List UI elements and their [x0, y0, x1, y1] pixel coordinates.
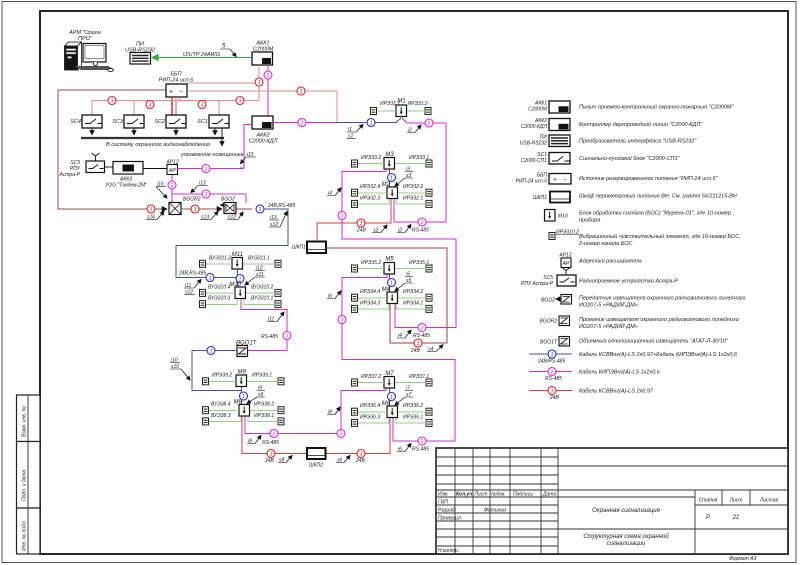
- marker 3: [191, 205, 199, 213]
- svg-text:АР: АР: [562, 261, 570, 267]
- svg-text:№док.: №док.: [491, 492, 506, 498]
- svg-text:24В: 24В: [355, 458, 366, 464]
- flag i7 s7: [395, 386, 413, 406]
- svg-text:ШКП2: ШКП2: [309, 463, 323, 469]
- wire red SC supply bus: [92, 100, 259, 102]
- wire АКК3 to АР12: [143, 168, 168, 170]
- wire node to blue trunk: [236, 208, 252, 210]
- svg-text:BGOR2: BGOR2: [183, 197, 201, 203]
- svg-text:Структурная схема охранной: Структурная схема охранной: [583, 533, 669, 540]
- wire blue BGO1T to М9: [192, 351, 242, 391]
- marker 1: [256, 205, 264, 213]
- svg-text:сигнализации: сигнализации: [607, 541, 646, 547]
- ШКП2 cabinet: [307, 448, 326, 469]
- legend BGOR2: [539, 316, 738, 330]
- element ВУЭ38.3: [203, 418, 209, 425]
- svg-text:24В: 24В: [549, 395, 560, 401]
- АКК1 С2000М: [252, 41, 274, 66]
- legend cable 1: [529, 350, 738, 365]
- marker 1: [388, 393, 396, 401]
- svg-text:RS-485: RS-485: [261, 334, 278, 340]
- marker 1: [367, 119, 375, 127]
- wire green М3 right: [395, 163, 426, 165]
- svg-text:С2000М: С2000М: [528, 107, 548, 113]
- BGOR2 receiver: [169, 197, 201, 215]
- legend ИРЭ310.2 element: [549, 230, 741, 248]
- wire blue М11-М10 link: [237, 270, 239, 288]
- wire blue М3-М2 link: [389, 170, 391, 188]
- svg-text:Лист: Лист: [474, 492, 488, 498]
- marker 2: [264, 71, 272, 79]
- element ИРЭ39.1: [278, 378, 284, 385]
- АКК2 С2000-КДЛ: [249, 116, 278, 145]
- stamp grid vertical lines: [455, 448, 750, 554]
- box Инв. № подл.: [17, 508, 41, 554]
- legend cable 3: [529, 387, 654, 402]
- wire green М1 left: [377, 110, 396, 112]
- svg-text:ВУЭ310.3: ВУЭ310.3: [208, 296, 231, 302]
- svg-text:ВУЭ310.1: ВУЭ310.1: [251, 296, 274, 302]
- BGO2 emit arrow: [221, 204, 228, 206]
- svg-text:Источник резервированного пита: Источник резервированного питания "РИП-2…: [579, 176, 719, 182]
- wire RS-485 magenta М8 to М7 chain: [245, 417, 337, 434]
- marker 3: [198, 101, 206, 109]
- legend cable 2: [529, 368, 661, 383]
- svg-text:ВУЭ311.1: ВУЭ311.1: [248, 256, 270, 262]
- marker 3: [414, 339, 422, 347]
- legend SC1 С2000-СП1: [521, 152, 681, 164]
- wire green М9 left: [209, 381, 236, 383]
- wire magenta АР12 down to BGOR2: [171, 175, 173, 203]
- svg-text:Фотиных: Фотиных: [484, 508, 507, 514]
- flag i6: [397, 444, 411, 453]
- element ИРЭ34.4: [352, 294, 358, 301]
- wire green М5 right: [395, 268, 426, 270]
- marker 2: [202, 165, 210, 173]
- АКК3 УОО Тандем-2М: [105, 162, 147, 189]
- legend ШКП1: [533, 192, 737, 203]
- element ИРЭ31.1: [371, 108, 377, 115]
- marker 2: [168, 181, 176, 189]
- svg-text:Н.контр.: Н.контр.: [438, 548, 459, 554]
- svg-text:2-номер канала БОС: 2-номер канала БОС: [578, 241, 632, 247]
- video system bus: [81, 137, 224, 139]
- BGO2 transmitter: [221, 197, 236, 214]
- svg-text:С2000-КДЛ: С2000-КДЛ: [249, 139, 278, 145]
- svg-text:ИРЭ37.2: ИРЭ37.2: [361, 374, 381, 380]
- wire green М10 right bottom: [244, 299, 275, 304]
- marker 3: [146, 101, 154, 109]
- wire red BGOR2 to BGO2: [181, 208, 222, 210]
- SC5 РПУ Астра-Р: [59, 153, 105, 178]
- svg-text:ИРЭ32.1: ИРЭ32.1: [403, 196, 423, 202]
- svg-text:BGO2: BGO2: [541, 298, 555, 304]
- marker 2: [425, 119, 433, 127]
- arrow to lighting control: [221, 128, 223, 146]
- arrows SC to video bus: [91, 128, 93, 135]
- flag i1 s1: [347, 125, 364, 140]
- SC3 С2000-СП1: [112, 115, 144, 128]
- element ВУЭ38.4: [203, 407, 209, 414]
- svg-text:SC2: SC2: [154, 119, 165, 125]
- АРМ "Орион ПРО" workstation: [65, 30, 116, 441]
- svg-text:ИРЭ38.2: ИРЭ38.2: [254, 402, 274, 408]
- svg-text:SC3: SC3: [112, 119, 124, 125]
- flag i5 s5: [395, 272, 413, 292]
- svg-text:24В,RS-485: 24В,RS-485: [178, 271, 206, 277]
- svg-text:Лист: Лист: [729, 498, 743, 504]
- svg-text:Охранная сигнализация: Охранная сигнализация: [592, 508, 660, 514]
- element ИРЭ36.3: [352, 419, 358, 426]
- ББП РИП-24 исп.6: [159, 72, 194, 98]
- wire green М4 left top: [358, 297, 387, 299]
- wire green М6 right bottom: [396, 418, 426, 423]
- marker 3: [357, 450, 365, 458]
- svg-text:ИРЭ36.1: ИРЭ36.1: [403, 415, 423, 421]
- svg-text:BGOR2: BGOR2: [539, 319, 557, 325]
- element ИРЭ32.2: [426, 189, 432, 196]
- svg-text:ИРЭ33.1: ИРЭ33.1: [409, 155, 429, 161]
- wire RS-485 magenta М10 to BGO1T: [241, 299, 287, 351]
- svg-text:ВУЭ310.4: ВУЭ310.4: [208, 285, 231, 291]
- element ИРЭ35.2: [352, 265, 358, 272]
- element ИРЭ31.2: [425, 108, 431, 115]
- svg-text:ИРЭ37.1: ИРЭ37.1: [409, 374, 429, 380]
- wire red 24V М8 to ШКП2: [242, 417, 307, 454]
- flag i4: [327, 188, 341, 197]
- svg-text:ВУЭ311.2: ВУЭ311.2: [209, 256, 231, 262]
- element ВУЭ310.4: [200, 289, 206, 296]
- svg-text:РИП-24 исп.6: РИП-24 исп.6: [516, 179, 548, 185]
- legend ББП РИП-24: [516, 173, 719, 185]
- svg-text:ШКП1: ШКП1: [533, 195, 547, 201]
- wire blue М7-М6 link: [389, 389, 391, 407]
- svg-text:ИРЭ32.2: ИРЭ32.2: [403, 184, 423, 190]
- legend BGO1T: [540, 337, 729, 347]
- legend SC5 РПУ Астра-Р: [521, 268, 678, 288]
- flag i8: [247, 436, 261, 445]
- element ИРЭ36.4: [352, 408, 358, 415]
- svg-text:ШКП1: ШКП1: [292, 245, 306, 251]
- svg-text:Блок обработки сигнала (БОС) ": Блок обработки сигнала (БОС) "Мурена-01"…: [579, 211, 731, 217]
- svg-text:М5: М5: [385, 257, 394, 263]
- flag i4: [397, 330, 411, 339]
- svg-text:RS-485: RS-485: [413, 333, 430, 339]
- svg-text:+: +: [553, 178, 557, 184]
- flag i15: [241, 152, 257, 164]
- svg-text:RS-485: RS-485: [545, 376, 562, 382]
- wire green М8 left bottom: [209, 417, 241, 422]
- svg-text:Инв. № подл.: Инв. № подл.: [22, 520, 28, 551]
- svg-text:ВУЭ38.3: ВУЭ38.3: [211, 413, 231, 419]
- wire green М8 right top: [250, 409, 278, 411]
- wire 24V red ББП to АКК1 drop: [187, 82, 255, 84]
- element ИРЭ39.2: [203, 378, 209, 385]
- svg-text:управление освещением: управление освещением: [180, 152, 245, 158]
- svg-text:Кабель КСВВнг(А)-LS 2х0,97+Каб: Кабель КСВВнг(А)-LS 2х0,97+Кабель КИПЭВн…: [579, 352, 738, 358]
- flag i2: [397, 225, 411, 234]
- wire cable1 blue node to М1: [337, 118, 401, 123]
- element ВУЭ310.1: [275, 301, 281, 308]
- svg-text:Формат А3: Формат А3: [729, 556, 757, 562]
- wire RS-485 magenta М1 to М2: [394, 118, 446, 222]
- svg-text:С2000-СП1: С2000-СП1: [521, 158, 548, 164]
- svg-text:Вибрационный чувствительный эл: Вибрационный чувствительный элемент, где…: [579, 233, 741, 240]
- svg-text:24В/RS-485: 24В/RS-485: [537, 359, 565, 365]
- marker 2: [202, 190, 210, 198]
- svg-text:ИРЭ32.3: ИРЭ32.3: [360, 196, 380, 202]
- marker 1: [207, 347, 215, 355]
- wire RS-485 magenta АКК1 to АКК2: [267, 65, 269, 116]
- svg-text:BGO1T: BGO1T: [540, 340, 558, 346]
- legend АКК2 С2000-КДЛ: [521, 118, 704, 131]
- ПИ USB-RS232: [125, 42, 155, 65]
- svg-text:RS-485: RS-485: [262, 440, 279, 446]
- SC2 С2000-СП1: [154, 115, 186, 128]
- legend BGO2: [541, 295, 745, 309]
- marker 1: [236, 275, 244, 283]
- svg-text:Изм.: Изм.: [438, 492, 449, 498]
- svg-text:ИРЭ34.3: ИРЭ34.3: [360, 301, 380, 307]
- left attachment boxes: [17, 395, 41, 554]
- wire green М2 right top: [398, 192, 426, 194]
- wire green М10 left bottom: [206, 299, 237, 304]
- marker 3: [236, 97, 244, 105]
- marker 1: [388, 174, 396, 182]
- svg-text:−: −: [179, 89, 183, 96]
- wire U/UTP green АКК1 to ПИ: [153, 57, 253, 59]
- marker 3: [357, 219, 365, 227]
- svg-text:ИРЭ31.1: ИРЭ31.1: [380, 101, 400, 107]
- flag s4: [427, 345, 443, 353]
- flag s13: [200, 212, 218, 221]
- svg-text:SC4: SC4: [70, 119, 81, 125]
- wire RS-485 magenta М5 to М6: [342, 275, 455, 442]
- marker 3: [255, 78, 263, 86]
- svg-text:Преобразователь интерфейса "US: Преобразователь интерфейса "USB-RS232": [579, 138, 697, 145]
- svg-text:ИРЭ39.1: ИРЭ39.1: [252, 373, 272, 379]
- svg-text:РИП-24 исп.6: РИП-24 исп.6: [159, 78, 194, 84]
- wire green М8 left top: [209, 409, 239, 411]
- svg-text:ИРЭ34.2: ИРЭ34.2: [403, 289, 423, 295]
- svg-text:ВУЭ38.4: ВУЭ38.4: [211, 402, 231, 408]
- svg-text:21: 21: [732, 515, 740, 521]
- flag i11 s12: [184, 280, 201, 296]
- element ИРЭ32.3: [352, 200, 358, 207]
- wire green М11 right: [243, 263, 275, 265]
- main stamp outline: [436, 448, 788, 554]
- stamp grid horizontal lines: [436, 457, 788, 546]
- svg-text:SC1: SC1: [197, 119, 208, 125]
- wire 24V maroon trunk ББП left down: [58, 90, 166, 209]
- wire SC5 to АКК3: [105, 166, 114, 168]
- wire 24V red АКК1 down: [258, 65, 260, 83]
- wire magenta BGOR2 branch to node: [172, 194, 246, 203]
- marker 2: [418, 437, 426, 445]
- svg-text:Радиоприемное устройство Астра: Радиоприемное устройство Астра-Р: [579, 278, 678, 285]
- box Подп. и дата: [17, 442, 41, 509]
- wire 24V red ББП right bus B: [187, 91, 337, 122]
- svg-text:Проверил: Проверил: [438, 516, 461, 522]
- svg-text:ПРО": ПРО": [78, 36, 93, 42]
- wire RS-485 magenta М7 to М8: [278, 389, 386, 434]
- marker 3: [108, 97, 116, 105]
- wire green М7 right: [395, 382, 426, 384]
- svg-text:Адресный расширитель: Адресный расширитель: [578, 258, 642, 265]
- svg-text:ИРЭ36.4: ИРЭ36.4: [360, 403, 380, 409]
- svg-text:ИРЭ35.2: ИРЭ35.2: [361, 260, 381, 266]
- svg-text:Подп. и дата: Подп. и дата: [22, 469, 28, 501]
- legend ПИ USB-RS232: [520, 135, 698, 147]
- element ИРЭ35.1: [426, 265, 432, 272]
- svg-text:−: −: [563, 178, 567, 184]
- BGO1T detector АГАТ: [236, 341, 258, 357]
- element ВУЭ310.2: [275, 289, 281, 296]
- svg-text:ИРЭ36.2: ИРЭ36.2: [403, 403, 423, 409]
- svg-text:Р: Р: [706, 515, 710, 521]
- svg-text:ИРЭ33.2: ИРЭ33.2: [361, 155, 381, 161]
- flag s2: [372, 225, 387, 234]
- element ИРЭ34.2: [426, 294, 432, 301]
- marker 2: [418, 324, 426, 332]
- wire green М7 left: [358, 382, 384, 384]
- box Взам. инв. №: [17, 395, 41, 442]
- svg-text:ИРЭ31.2: ИРЭ31.2: [408, 101, 428, 107]
- flag i2: [407, 125, 421, 134]
- svg-text:Кол.уч.: Кол.уч.: [456, 492, 474, 498]
- svg-text:ИРЭ36.3: ИРЭ36.3: [360, 415, 380, 421]
- svg-text:Стадия: Стадия: [699, 498, 718, 504]
- svg-text:С2000-КДЛ: С2000-КДЛ: [521, 124, 548, 130]
- wire RS-485 magenta АКК2 left to АР12 branch: [240, 125, 252, 169]
- svg-text:Подпись: Подпись: [513, 492, 533, 498]
- svg-text:Дата: Дата: [542, 492, 556, 498]
- svg-text:Передатчик извещателя охранног: Передатчик извещателя охранного радиовол…: [579, 295, 746, 302]
- legend БОС М10: [545, 210, 731, 224]
- SC4 С2000-СП1: [70, 115, 102, 128]
- element ИРЭ32.4: [352, 189, 358, 196]
- svg-text:Астра-Р: Астра-Р: [59, 172, 81, 178]
- wire darkred ШКП1 to М4: [326, 248, 447, 343]
- flag 5 (cable mark): [220, 44, 236, 57]
- element ВУЭ311.2: [200, 260, 206, 267]
- element ИРЭ33.1: [426, 160, 432, 167]
- wire red 24V into BGOR2: [58, 208, 167, 210]
- wire green М1 right: [407, 110, 425, 112]
- TITLEBLOCK: [436, 448, 788, 562]
- marker 2: [338, 212, 346, 220]
- wire red 24V ШКП2 to М6: [326, 418, 390, 454]
- wire green М8 right bottom: [248, 417, 278, 422]
- element ИРЭ34.1: [426, 305, 432, 312]
- wire red 24V М2 to ШКП1: [317, 199, 391, 242]
- marker 3: [147, 205, 155, 213]
- svg-text:Сигнально-пусковой блок "С2000: Сигнально-пусковой блок "С2000-СП1": [579, 155, 681, 162]
- АР12 addressable expander: [165, 160, 178, 175]
- element ВУЭ311.1: [275, 260, 281, 267]
- flag i11: [267, 312, 284, 323]
- svg-text:УОО "Тандем-2М": УОО "Тандем-2М": [105, 183, 147, 189]
- legend АКК1 С2000М: [528, 101, 734, 114]
- marker 3: [267, 450, 275, 458]
- flag i3 s3: [395, 167, 413, 187]
- wire blue М9-М8 link: [241, 387, 243, 405]
- svg-text:Кабель КСВВнг(А)-LS 2х0,97: Кабель КСВВнг(А)-LS 2х0,97: [579, 389, 654, 395]
- wire green М9 right: [247, 381, 278, 383]
- wire RS-485 magenta М3 to М4: [342, 170, 456, 328]
- wire magenta АР12 right branch: [178, 168, 245, 170]
- flag i6: [327, 291, 341, 300]
- svg-text:ИО207-5 «РАДИЙ-ДМ»: ИО207-5 «РАДИЙ-ДМ»: [579, 322, 638, 330]
- svg-text:Листов: Листов: [759, 498, 779, 504]
- svg-text:ИРЭ310.2: ИРЭ310.2: [556, 230, 579, 236]
- svg-text:Шкаф периметровый питания ВН.: Шкаф периметровый питания ВН. См. раздел…: [579, 193, 737, 200]
- svg-text:ИРЭ32.4: ИРЭ32.4: [360, 184, 380, 190]
- element ИРЭ34.3: [352, 305, 358, 312]
- wire green М2 left top: [358, 192, 387, 194]
- marker 2: [338, 316, 346, 324]
- wire green М4 right top: [398, 297, 426, 299]
- element ИРЭ32.1: [426, 200, 432, 207]
- marker 1: [206, 274, 214, 282]
- svg-text:Контроллер двухпроводной линии: Контроллер двухпроводной линии "С2000-КД…: [579, 121, 703, 128]
- wire green М6 right top: [398, 411, 426, 413]
- svg-text:ИРЭ39.2: ИРЭ39.2: [212, 373, 232, 379]
- marker 3: [297, 87, 305, 95]
- marker 2: [270, 430, 278, 438]
- element ИРЭ33.2: [352, 160, 358, 167]
- element ИРЭ36.1: [426, 419, 432, 426]
- marker 1: [240, 392, 248, 400]
- LEGEND: [516, 101, 746, 402]
- svg-text:24В: 24В: [356, 228, 367, 234]
- legend АР12: [558, 253, 642, 268]
- element ИРЭ36.2: [426, 408, 432, 415]
- marker 2: [418, 218, 426, 226]
- wire green М2 left bottom: [358, 199, 389, 204]
- element ВУЭ310.3: [200, 301, 206, 308]
- svg-text:ИРЭ34.1: ИРЭ34.1: [403, 301, 423, 307]
- svg-text:24В: 24В: [264, 458, 275, 464]
- flag i16: [156, 182, 167, 199]
- wire green М5 left: [358, 268, 384, 270]
- svg-text:М10: М10: [558, 214, 568, 220]
- ШКП1 cabinet: [292, 242, 326, 254]
- wire cable1 blue trunk to М11-М10: [176, 209, 288, 278]
- svg-text:Объемный однопозиционный извещ: Объемный однопозиционный извещатель "АГА…: [579, 338, 729, 345]
- element ИРЭ37.2: [352, 379, 358, 386]
- wire red ББП bottom feeds: [171, 97, 173, 115]
- element ИРЭ38.2: [278, 407, 284, 414]
- marker 2: [283, 332, 291, 340]
- svg-text:Кабель КИПЭВнг(А)-LS 1х2х0,6: Кабель КИПЭВнг(А)-LS 1х2х0,6: [579, 370, 661, 376]
- element ИРЭ37.1: [426, 379, 432, 386]
- svg-text:+: +: [169, 89, 173, 96]
- svg-text:ИРЭ34.4: ИРЭ34.4: [360, 289, 380, 295]
- wire green М6 left top: [358, 411, 387, 413]
- marker 1: [388, 279, 396, 287]
- svg-text:прибора: прибора: [579, 218, 600, 224]
- wire green М10 left top: [206, 292, 235, 294]
- svg-text:RS-485: RS-485: [412, 228, 429, 234]
- svg-text:В систему охранного видеонаблю: В систему охранного видеонаблюдения: [106, 142, 210, 148]
- wire green М3 left: [358, 163, 384, 165]
- flag i8: [327, 407, 340, 416]
- SC1 С2000-СП1: [197, 115, 229, 128]
- svg-text:BGO2: BGO2: [221, 197, 235, 203]
- wire green М2 right bottom: [396, 199, 426, 204]
- wire green М4 left bottom: [358, 304, 389, 309]
